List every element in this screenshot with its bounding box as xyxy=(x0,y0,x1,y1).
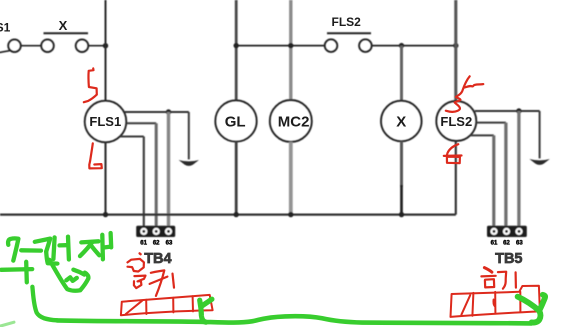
node FLS2 wire junction xyxy=(516,108,521,113)
svg-text:GL: GL xyxy=(225,113,246,130)
svg-text:MC2: MC2 xyxy=(278,113,310,130)
wire FLS2 pin2 xyxy=(476,122,506,124)
wire FLS2 column upper xyxy=(454,0,457,101)
annotation red table TB5 cell hook xyxy=(493,300,494,307)
svg-text:62: 62 xyxy=(503,241,510,247)
annotation red 5 near FLS2 xyxy=(446,76,470,112)
svg-text:S1: S1 xyxy=(0,21,11,35)
schematic black layer xyxy=(0,0,550,237)
wire contact FLS2 to FLS2 column xyxy=(372,45,456,47)
annotation red 5 tail near FLS2 xyxy=(465,84,484,87)
wire X column lower xyxy=(400,141,403,187)
node bus / MC2 xyxy=(288,212,293,217)
annotation red glyph A below TB4 xyxy=(128,259,144,272)
annotation red table TB4 divider 1 xyxy=(145,300,147,314)
contact FLS2 bar xyxy=(327,32,371,34)
annotation red table TB4 divider 3 xyxy=(192,296,194,311)
annotation red glyph B below TB4 xyxy=(134,276,146,289)
annotation green long underline xyxy=(57,316,532,323)
wire GL column upper xyxy=(235,0,238,101)
coil MC2 xyxy=(270,100,312,142)
annotation green glyph3 vertical xyxy=(100,235,105,259)
annotation green faint start xyxy=(1,322,15,326)
annotation red 6 near FLS2 xyxy=(447,144,460,163)
svg-text:61: 61 xyxy=(491,241,498,247)
annotation green inner zigzag xyxy=(66,277,77,281)
annotation red table TB5 divider 1 xyxy=(472,293,473,316)
wire bottom bus xyxy=(0,214,456,216)
annotation green glyph3 left diagonal xyxy=(80,242,92,256)
svg-text:TB5: TB5 xyxy=(495,251,522,267)
svg-text:61: 61 xyxy=(140,241,147,247)
red annotation layer xyxy=(84,68,540,317)
contact X right circle xyxy=(76,39,89,52)
wire FLS2 pin3 drop to TB5-61 xyxy=(492,135,495,226)
svg-text:FLS1: FLS1 xyxy=(89,114,121,129)
annotation green glyph2 tick xyxy=(60,243,67,247)
node GL / contact row xyxy=(234,43,239,48)
node MC2 / contact row xyxy=(288,43,293,48)
annotation red 6 bar near FLS2 xyxy=(444,154,462,157)
contact circle S1 right terminal xyxy=(8,39,21,52)
relay X xyxy=(381,101,422,142)
svg-text:63: 63 xyxy=(166,241,173,247)
svg-text:FLS2: FLS2 xyxy=(332,15,362,29)
annotation green glyph1 vertical xyxy=(24,262,29,283)
annotation green glyph2 right vertical xyxy=(66,237,71,260)
annotation green glyph3 right diagonal xyxy=(90,244,99,255)
wire between S1 and X contact xyxy=(21,45,41,47)
annotation green inner arrow xyxy=(73,270,84,275)
annotation green glyph1 bar xyxy=(1,267,32,272)
text labels layer xyxy=(0,15,523,267)
node FLS2 column / contact row xyxy=(453,43,458,48)
annotation green glyph3 tick xyxy=(103,245,110,250)
pin labels TB4 61 62 63 xyxy=(140,241,173,247)
wire FLS1 ground drop xyxy=(188,112,190,159)
contact FLS2 right circle xyxy=(359,39,372,52)
annotation green glyph1 top stroke xyxy=(8,238,18,260)
svg-text:X: X xyxy=(396,113,406,130)
annotation red 7 below TB4 xyxy=(151,270,165,296)
wire FLS2 pin1 drop to TB5-63 xyxy=(517,111,520,227)
wire MC2 column upper xyxy=(289,0,292,100)
annotation green big V scribble xyxy=(49,260,88,291)
pin labels TB5 61 62 63 xyxy=(491,241,524,247)
annotation green check at TB5 right wing xyxy=(539,295,545,311)
annotation red table TB5 cell diagonal xyxy=(461,295,470,315)
wire FLS1 pin3 drop to TB4-61 xyxy=(143,137,145,227)
annotation red 1 below TB4 xyxy=(173,274,175,288)
annotation green arrow at TB4 table xyxy=(200,300,206,322)
annotation green check at TB5 left wing xyxy=(518,297,541,323)
wire X column upper xyxy=(400,46,403,101)
wire FLS2 pin1 to ground branch xyxy=(475,110,540,112)
wire FLS1 pin3 xyxy=(120,136,144,138)
annotation red table TB4 xyxy=(121,295,213,315)
svg-text:62: 62 xyxy=(153,241,160,247)
annotation red table TB5 xyxy=(451,286,540,317)
svg-text:X: X xyxy=(59,18,68,33)
annotation red 7 below TB5 xyxy=(498,272,506,289)
contact X left circle xyxy=(41,39,54,52)
terminal block TB5 xyxy=(487,226,527,237)
annotation red 1 below TB5 xyxy=(514,272,517,287)
node FLS1 wire junction xyxy=(166,109,171,114)
annotation red 5 near FLS1 xyxy=(84,68,97,102)
coil FLS1 xyxy=(85,101,127,143)
ground symbol left xyxy=(179,160,199,166)
annotation green arrow at TB4 table right wing xyxy=(202,299,212,306)
svg-text:63: 63 xyxy=(516,241,523,247)
wire MC2 column lower xyxy=(289,142,293,215)
node X / contact row xyxy=(399,43,404,48)
contact FLS2 left circle xyxy=(325,39,338,52)
annotation red table TB5 divider 2 xyxy=(494,292,496,313)
wire FLS1 pin1 to ground branch xyxy=(124,111,189,113)
annotation green glyph1 tick xyxy=(21,248,41,253)
node junction FLS1 column / contact row xyxy=(103,43,108,48)
annotation red table TB5 divider 3 xyxy=(519,292,521,312)
node bus / X xyxy=(399,212,404,217)
contact X bar xyxy=(44,32,89,34)
wire FLS1 column upper xyxy=(105,0,107,101)
annotation red fleck near TB4 xyxy=(140,252,141,255)
node bus / FLS1 xyxy=(103,212,108,217)
annotation green glyph2 top xyxy=(35,239,50,252)
annotation green glyph3 bar xyxy=(81,241,98,242)
wire FLS1 pin2 xyxy=(126,122,156,124)
annotation red accent above TB5 glyphs xyxy=(484,268,492,273)
annotation red 6 near FLS1 xyxy=(89,143,102,168)
annotation green exclamation stroke xyxy=(108,233,113,247)
wire X column lower dark part xyxy=(400,185,403,215)
wire FLS2 pin2 drop to TB5-62 xyxy=(504,123,507,227)
wire FLS2 ground drop xyxy=(539,111,541,158)
wire FLS2 contact row xyxy=(236,45,325,47)
wire FLS1 pin1 drop to TB4-63 xyxy=(167,112,170,227)
wire FLS2 column lower xyxy=(455,141,457,215)
wire GL column lower xyxy=(235,142,238,215)
svg-text:TB4: TB4 xyxy=(144,251,171,267)
wire contact X to FLS1 column xyxy=(88,45,105,47)
svg-text:FLS2: FLS2 xyxy=(440,114,472,129)
wire FLS1 pin2 drop to TB4-62 xyxy=(155,123,158,226)
annotation red glyph o box below TB5 xyxy=(485,279,494,287)
lamp GL xyxy=(215,100,256,141)
annotation green glyph2 bottom L xyxy=(46,252,57,264)
wire FLS2 pin3 xyxy=(471,134,494,136)
annotation green glyph2 vertical xyxy=(53,237,54,259)
coil FLS2 xyxy=(436,101,476,141)
annotation red glyph o bar below TB5 xyxy=(481,275,495,278)
annotation red table TB4 cell diagonal xyxy=(126,301,142,314)
ground symbol right xyxy=(529,159,549,165)
green annotation layer xyxy=(1,233,546,326)
annotation red 7 slash below TB4 xyxy=(150,277,168,284)
wire FLS1 column lower xyxy=(104,142,106,214)
terminal block TB4 xyxy=(136,226,175,237)
annotation green curve into underline xyxy=(32,287,57,321)
node bus / GL xyxy=(234,212,239,217)
wire left incoming xyxy=(0,51,10,53)
annotation red table TB4 divider 2 xyxy=(172,298,174,313)
